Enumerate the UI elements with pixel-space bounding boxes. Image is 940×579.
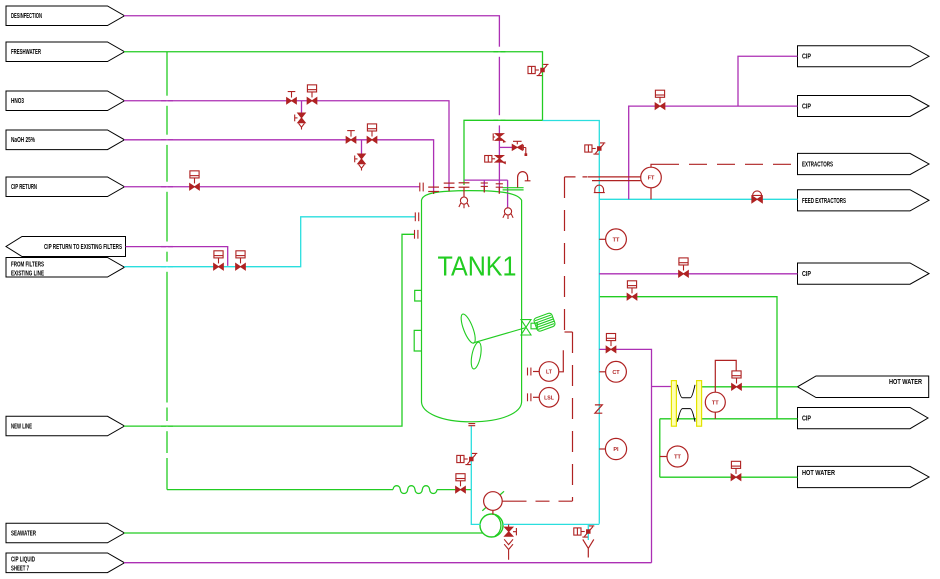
svg-text:HOT WATER: HOT WATER xyxy=(802,470,835,477)
spray ball 1 xyxy=(459,197,469,208)
wire from filters xyxy=(124,217,415,267)
wire cip y349 to hx xyxy=(599,349,671,562)
wire tank outlet to pump xyxy=(471,426,480,525)
nozzle spray d xyxy=(481,183,488,186)
spray ball 2 xyxy=(503,208,513,219)
valve drain desinfection upper xyxy=(493,133,506,142)
FT to extractors elbow xyxy=(651,164,661,167)
sight glass xyxy=(484,492,503,511)
banner NaOH 25% xyxy=(6,130,125,150)
wire freshwater drop tee x167 xyxy=(166,52,168,490)
agitator blade upper xyxy=(458,312,478,344)
banner HOT WATER bottom xyxy=(798,466,930,487)
wire feed extractors xyxy=(599,198,797,200)
wire naoh xyxy=(124,140,434,193)
banner CIP RETURN TO EXISTING FILTERS (left pointing) xyxy=(6,237,126,257)
valve diaphragm feed extractors xyxy=(752,191,763,203)
wire seawater xyxy=(124,532,483,534)
svg-text:DESINFECTION: DESINFECTION xyxy=(11,13,42,20)
wire freshwater main xyxy=(124,52,543,185)
wire cyan header vertical xyxy=(543,121,600,524)
wire desinfection xyxy=(124,16,499,194)
svg-text:HNO3: HNO3 xyxy=(11,98,24,105)
banner CIP right 2 xyxy=(798,96,930,117)
svg-text:CIP RETURN: CIP RETURN xyxy=(11,184,37,191)
banner FRESHWATER xyxy=(6,42,125,62)
wire naoh drain branch xyxy=(361,140,363,154)
valve cip return xyxy=(190,171,200,190)
dashed vertical left xyxy=(564,177,566,332)
agitator blade lower xyxy=(469,341,483,369)
wire hx bottom to cip banner xyxy=(660,418,798,420)
tank side nozzle bracket 2 (manway) xyxy=(414,330,421,351)
flange new line xyxy=(415,230,418,239)
svg-text:NaOH 25%: NaOH 25% xyxy=(11,137,36,144)
valve solenoid desinfection xyxy=(485,155,506,164)
wire cip liquid sheet7 xyxy=(124,562,652,564)
svg-text:FROM FILTERS: FROM FILTERS xyxy=(11,261,44,268)
instrument LSL xyxy=(539,388,559,408)
valve drain naoh xyxy=(355,154,366,171)
line break Z xyxy=(595,405,602,413)
svg-text:EXISTING LINE: EXISTING LINE xyxy=(11,270,44,277)
flange tank outlet xyxy=(468,424,475,426)
nozzle spray e xyxy=(496,184,503,187)
svg-text:NEW LINE: NEW LINE xyxy=(11,424,32,431)
wire new line xyxy=(124,234,415,426)
valve actuated hno3 xyxy=(307,85,317,104)
valve manual naoh xyxy=(346,131,356,143)
hx plate left xyxy=(671,381,676,427)
vent gooseneck xyxy=(518,172,531,188)
banner FEED EXTRACTORS xyxy=(798,190,930,211)
tank shell xyxy=(422,191,522,422)
sight glass to pump stub xyxy=(492,510,494,514)
jog xyxy=(565,331,573,333)
dashed vertical right xyxy=(572,332,574,501)
wire cip y274 xyxy=(599,273,797,275)
instrument PI xyxy=(605,438,626,459)
wire hx hot water out xyxy=(702,386,798,388)
banner NEW LINE xyxy=(6,416,125,436)
valve hot water bottom xyxy=(731,461,741,480)
valve cip green y297 xyxy=(627,281,637,300)
svg-text:TT: TT xyxy=(712,400,719,406)
TT hx signal loop to valve xyxy=(715,360,736,392)
svg-text:HOT WATER: HOT WATER xyxy=(889,379,922,386)
desinfection side branch with manual valve xyxy=(499,141,527,156)
nozzle naoh xyxy=(428,187,439,191)
instrument LT xyxy=(539,362,559,382)
dashed line to FT xyxy=(565,176,588,178)
LT signal link xyxy=(559,350,564,372)
pump P1 xyxy=(480,514,503,537)
crossing break gaps xyxy=(167,47,499,458)
flange LT xyxy=(528,368,531,376)
wire pump discharge xyxy=(503,523,599,525)
svg-text:PI: PI xyxy=(613,447,619,453)
banner CIP RETURN xyxy=(6,177,125,197)
agitator coupling xyxy=(531,323,537,329)
svg-text:FEED EXTRACTORS: FEED EXTRACTORS xyxy=(802,198,846,205)
valve actuated naoh xyxy=(367,124,377,143)
drain arrow discharge xyxy=(583,539,594,557)
svg-text:CIP: CIP xyxy=(802,104,811,111)
valve flag cyan header xyxy=(585,143,606,154)
alarm bell xyxy=(594,185,605,193)
valve from filters 2 xyxy=(236,251,246,270)
wire coil to pump suction xyxy=(437,489,471,491)
instrument TT top xyxy=(606,229,627,250)
TT hot water tap xyxy=(660,456,667,458)
wire coil xyxy=(393,486,437,494)
sight glass tail xyxy=(502,500,520,502)
CT tap xyxy=(599,371,605,373)
LSL tap xyxy=(533,396,539,398)
banner DESINFECTION xyxy=(6,6,125,26)
svg-text:SHEET 7: SHEET 7 xyxy=(11,565,29,572)
valve cip top xyxy=(655,90,665,109)
svg-text:LT: LT xyxy=(546,370,553,376)
flange cip return xyxy=(420,183,423,192)
valve seawater line xyxy=(456,474,466,493)
nozzle freshwater xyxy=(459,183,470,187)
svg-text:FRESHWATER: FRESHWATER xyxy=(11,49,41,56)
banner CIP LIQUID SHEET 7 xyxy=(6,553,125,573)
wire hno3 drain branch xyxy=(301,101,303,113)
wire cip green y297 xyxy=(599,297,777,419)
banner EXTRACTORS xyxy=(798,153,930,174)
FT lower tap xyxy=(650,188,652,200)
banner HOT WATER (left pointing) xyxy=(798,376,929,398)
svg-text:CIP: CIP xyxy=(802,271,811,278)
hx bundle bottom xyxy=(677,409,695,422)
valve cip y274 xyxy=(679,258,689,277)
svg-text:SEAWATER: SEAWATER xyxy=(11,530,36,537)
dashed to sight glass xyxy=(520,500,573,502)
svg-text:TT: TT xyxy=(613,237,620,243)
tank top pad xyxy=(503,188,524,190)
valve manual hno3 xyxy=(287,92,297,104)
valve drain hno3 xyxy=(295,113,306,130)
svg-text:TT: TT xyxy=(674,455,681,461)
wire cip supply top xyxy=(629,56,798,199)
valve from filters 1 xyxy=(214,251,224,270)
agitator stuffing box bowtie xyxy=(521,320,531,335)
LT tap xyxy=(533,371,539,373)
wire cip return to existing filters xyxy=(126,247,228,266)
wire top spray header y180 xyxy=(464,180,508,208)
agitator A1 xyxy=(458,312,555,369)
svg-text:CIP RETURN TO EXISTING FILTERS: CIP RETURN TO EXISTING FILTERS xyxy=(44,244,122,251)
dashed to extractors banner xyxy=(661,163,798,165)
banner CIP right 1 xyxy=(798,46,930,67)
valve hot water control xyxy=(732,371,742,390)
banner CIP right 3 xyxy=(798,263,930,284)
valve pump drain xyxy=(504,524,516,559)
svg-text:TANK1: TANK1 xyxy=(438,251,517,282)
svg-text:CIP: CIP xyxy=(802,416,811,423)
FT impulse lines xyxy=(588,177,641,181)
TT top tap xyxy=(599,238,605,240)
instrument CT xyxy=(606,361,627,382)
wire drain stub xyxy=(587,524,589,540)
instrument TT hx xyxy=(705,392,725,412)
flange LSL xyxy=(528,393,531,401)
hx bundle top xyxy=(677,385,695,398)
banner FROM FILTERS EXISTING LINE xyxy=(6,258,125,278)
hx plate right xyxy=(697,381,702,427)
agitator shaft xyxy=(474,328,527,343)
sight glass diagonal xyxy=(482,491,504,511)
flange from filters xyxy=(415,212,418,221)
tank side nozzle bracket 1 xyxy=(415,290,422,301)
wire cip return xyxy=(124,186,420,188)
valve flag freshwater drop xyxy=(528,64,549,75)
banner HNO3 xyxy=(6,91,125,111)
svg-text:FT: FT xyxy=(648,176,655,182)
valve flag discharge drain xyxy=(574,526,595,537)
nozzle hno3 xyxy=(444,183,455,187)
wire hx down to hot water bottom xyxy=(660,419,798,477)
banner CIP right 4 xyxy=(798,408,929,429)
agitator motor xyxy=(533,312,556,332)
instrument FT xyxy=(641,167,662,188)
TT hx bottom tap xyxy=(714,412,716,419)
svg-text:CT: CT xyxy=(612,370,620,376)
svg-text:EXTRACTORS: EXTRACTORS xyxy=(802,162,833,169)
wire hno3 xyxy=(124,101,449,191)
valve flag tank outlet xyxy=(457,453,478,464)
valve cip y349 xyxy=(606,334,616,353)
svg-text:LSL: LSL xyxy=(544,395,555,401)
svg-text:CIP: CIP xyxy=(802,54,811,61)
banner SEAWATER xyxy=(6,523,125,543)
instrument TT hot water xyxy=(667,446,688,467)
wire bottom header y489 xyxy=(167,489,393,491)
PI tap xyxy=(599,448,605,450)
svg-text:CIP LIQUID: CIP LIQUID xyxy=(11,556,35,563)
